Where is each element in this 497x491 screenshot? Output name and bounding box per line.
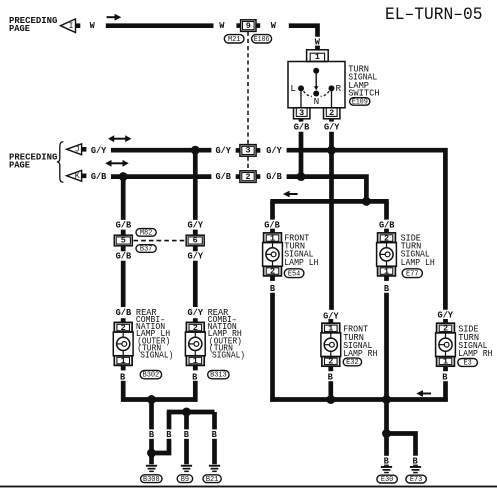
wire B jog from B308 junction to second bus	[152, 439, 170, 453]
svg-text:E73: E73	[410, 476, 423, 484]
wire B down to E30	[384, 434, 389, 456]
wire stub B308 ground	[149, 453, 154, 464]
svg-text:G/Y: G/Y	[188, 219, 204, 230]
wire G/B switch pin 3 down to K line	[299, 132, 304, 177]
connector 2	[236, 171, 261, 183]
ground B21	[209, 465, 220, 472]
connector 3	[236, 145, 261, 157]
wire stub above connector 6	[193, 230, 198, 236]
wire B front RH down to bus	[328, 381, 333, 402]
svg-text:3: 3	[299, 108, 304, 118]
two-way arrow (J line)	[108, 135, 131, 142]
wire G/B from K to connector 2	[111, 174, 211, 179]
svg-text:SIGNAL): SIGNAL)	[140, 350, 173, 361]
svg-text:G/Y: G/Y	[438, 309, 454, 320]
wire G/Y connector 6 to rear RH lamp	[193, 261, 198, 307]
svg-text:G/B: G/B	[116, 250, 132, 261]
wire W from page connector I to connector 9	[106, 23, 214, 28]
dashed link connector 5 to 6	[134, 240, 186, 242]
wire G/Y switch pin 2 down to front turn RH	[329, 132, 334, 310]
wire G/B rear LH branch upper	[121, 177, 126, 220]
svg-text:1: 1	[315, 52, 320, 62]
wire B rear LH down to bus	[121, 381, 126, 402]
front turn RH name	[343, 324, 377, 360]
svg-text:R: R	[335, 83, 341, 94]
front turn LH name	[284, 233, 318, 268]
svg-text:K: K	[75, 172, 80, 181]
rear combination LH name	[136, 307, 173, 361]
svg-text:B: B	[149, 429, 155, 440]
switch name text	[348, 64, 380, 99]
svg-text:G/Y: G/Y	[215, 145, 231, 156]
side turn LH name	[401, 233, 435, 268]
wire B bus (rear lamps)	[121, 397, 198, 402]
connector oval M82	[136, 229, 156, 238]
junction dot G/B at switch pin 3 wire	[297, 172, 306, 181]
wire B to B308 ground	[149, 439, 154, 453]
wire G/B switch pin 3 stub	[299, 119, 304, 122]
svg-text:PAGE: PAGE	[9, 160, 30, 171]
svg-text:W: W	[219, 20, 225, 31]
svg-text:B: B	[384, 283, 390, 294]
svg-text:G/Y: G/Y	[188, 307, 204, 318]
connector oval E106	[252, 35, 272, 44]
svg-text:J: J	[75, 145, 80, 154]
wire B to B9 ground lower	[184, 439, 189, 465]
wire B bus (front/side lamps)	[270, 397, 447, 402]
junction dot G/Y at switch pin 2 wire	[327, 146, 336, 155]
svg-text:G/B: G/B	[294, 122, 310, 133]
front turn signal lamp LH E54	[263, 229, 283, 281]
junction dot at B308 ground	[147, 449, 156, 458]
svg-text:E30: E30	[381, 476, 394, 484]
connector oval B37	[136, 245, 156, 254]
junction dot B bus at side LH	[382, 395, 391, 404]
junction dot G/B to rear LH branch	[119, 172, 128, 181]
svg-text:E54: E54	[288, 270, 301, 278]
svg-text:LAMP LH: LAMP LH	[401, 257, 435, 268]
svg-text:5: 5	[121, 236, 126, 246]
svg-text:B37: B37	[140, 246, 153, 254]
svg-text:G/B: G/B	[215, 171, 231, 182]
side turn signal lamp RH E3	[436, 319, 456, 371]
ground E30	[381, 466, 392, 473]
wire B front LH down to bus	[270, 293, 275, 402]
svg-text:E109: E109	[352, 99, 368, 107]
connector oval E32	[343, 358, 361, 367]
svg-text:EL–TURN–05: EL–TURN–05	[385, 5, 483, 25]
wire B from bus down to E30/E73 junction	[384, 400, 389, 434]
turn signal lamp switch E109	[288, 50, 345, 119]
rear combination RH name	[208, 307, 245, 361]
svg-text:L: L	[290, 83, 296, 94]
wire B to B21 ground lower	[212, 439, 217, 465]
svg-text:B: B	[270, 283, 276, 294]
wire B jog upper	[167, 412, 172, 429]
wire stub above connector 5	[121, 230, 126, 236]
wire B side LH down to bus	[384, 293, 389, 400]
side turn RH name	[458, 324, 492, 360]
connector oval B313	[208, 370, 229, 379]
ground oval B9	[177, 475, 192, 484]
ground oval E73	[406, 475, 426, 484]
ground B308	[146, 465, 157, 472]
svg-text:SWITCH: SWITCH	[348, 87, 380, 98]
svg-text:2: 2	[329, 108, 334, 118]
svg-text:B: B	[192, 371, 198, 382]
connector oval E77	[402, 269, 422, 279]
wire G/B down to side turn LH	[384, 201, 389, 219]
svg-text:M21: M21	[228, 36, 241, 44]
wire B rear RH down to bus	[193, 381, 198, 402]
junction dot B second bus	[182, 408, 191, 417]
direction arrow right (top)	[107, 14, 122, 21]
svg-text:M82: M82	[140, 230, 153, 238]
connector oval E54	[284, 269, 304, 279]
wire G/B down to front turn LH	[270, 201, 275, 219]
rear combination lamp RH B313	[185, 318, 205, 370]
svg-text:G/B: G/B	[116, 219, 132, 230]
ground oval B308	[141, 475, 162, 484]
connector 9	[236, 20, 260, 32]
wire G/Y from connector 3 to side turn RH	[287, 150, 446, 310]
svg-text:9: 9	[246, 21, 251, 31]
svg-text:3: 3	[245, 146, 250, 156]
svg-text:6: 6	[193, 236, 198, 246]
svg-text:G/B: G/B	[116, 307, 132, 318]
svg-text:E106: E106	[254, 36, 270, 44]
svg-text:1: 1	[121, 356, 126, 366]
svg-text:G/Y: G/Y	[324, 122, 340, 133]
two-way arrow (K line)	[105, 160, 128, 167]
svg-text:G/Y: G/Y	[266, 145, 282, 156]
wire G/B connector 5 to rear LH lamp	[121, 261, 126, 307]
harness split dashed line M21/E106 to E109 connectors	[247, 32, 249, 171]
page connector J	[67, 144, 87, 155]
brace for J/K page connectors	[57, 142, 64, 183]
svg-text:W: W	[90, 20, 96, 31]
svg-text:B: B	[184, 429, 190, 440]
svg-text:2: 2	[270, 266, 275, 276]
svg-text:B: B	[212, 429, 218, 440]
front turn signal lamp RH E32	[321, 319, 341, 371]
wire stub E30 ground	[384, 465, 389, 466]
preceding page label (middle)	[9, 152, 58, 171]
svg-text:E3: E3	[463, 360, 471, 368]
wire W from connector 9 to switch pin 1	[289, 26, 318, 37]
svg-text:2: 2	[328, 357, 333, 367]
page footer rule	[0, 486, 497, 488]
wire B branch to E73	[387, 434, 416, 456]
junction dot E30/E73	[382, 429, 391, 438]
wire G/Y rear RH branch upper	[193, 150, 198, 220]
wire B second bus	[167, 410, 215, 415]
page connector K	[67, 170, 87, 181]
wire G/B branch to front LH and side LH lamps	[270, 199, 388, 204]
side turn signal lamp LH E77	[377, 229, 397, 281]
junction dot B bus at front RH	[326, 395, 335, 404]
svg-text:1: 1	[384, 266, 389, 276]
wire stub E73 ground	[413, 465, 418, 466]
svg-text:PAGE: PAGE	[9, 23, 30, 34]
wire B down to B21 ground	[212, 412, 217, 429]
svg-text:1: 1	[443, 357, 448, 367]
connector oval M21	[224, 35, 244, 44]
junction dot G/Y to rear RH branch	[191, 146, 200, 155]
connector 5	[114, 235, 132, 246]
ground B9	[181, 465, 192, 472]
wire G/B from connector 2 to front/side LH branch	[287, 177, 367, 202]
svg-text:G/B: G/B	[266, 171, 282, 182]
direction arrow left (B bus)	[416, 390, 431, 397]
connector 6	[186, 235, 204, 246]
direction arrow left (G/B branch)	[283, 191, 298, 198]
svg-text:G/Y: G/Y	[91, 145, 107, 156]
wire stub into switch pin 1	[315, 46, 320, 50]
wire G/Y from J to connector 3	[111, 148, 211, 153]
svg-text:B: B	[328, 372, 334, 383]
svg-text:B313: B313	[210, 372, 227, 380]
svg-text:G/B: G/B	[91, 171, 107, 182]
wire stub below connector 5	[121, 246, 126, 251]
svg-text:B: B	[166, 429, 172, 440]
ground E73	[410, 466, 421, 473]
connector oval E3	[458, 359, 478, 368]
svg-text:E77: E77	[406, 270, 419, 278]
wire stub below connector 6	[193, 246, 198, 251]
svg-text:B21: B21	[206, 476, 219, 484]
svg-text:B: B	[120, 371, 126, 382]
svg-text:G/Y: G/Y	[188, 250, 204, 261]
preceding page label (top)	[9, 15, 58, 34]
svg-text:B9: B9	[181, 476, 189, 484]
wire G/Y switch pin 2 stub	[329, 119, 334, 122]
junction dot B bus left	[147, 395, 156, 404]
page connector I	[61, 19, 81, 33]
svg-text:LAMP LH: LAMP LH	[284, 257, 318, 268]
ground oval E30	[377, 475, 397, 484]
ground oval B21	[203, 475, 221, 484]
svg-text:B308: B308	[143, 476, 160, 484]
connector oval E109	[350, 98, 370, 107]
svg-text:SIGNAL): SIGNAL)	[212, 350, 245, 361]
svg-text:LAMP RH: LAMP RH	[458, 348, 492, 359]
wire B down to B9 ground	[184, 412, 189, 429]
svg-text:2: 2	[245, 172, 250, 182]
wire B side RH down to bus	[443, 381, 448, 402]
svg-text:B302: B302	[143, 372, 160, 380]
wire B down from bus to B308 junction	[149, 400, 154, 430]
svg-text:1: 1	[193, 356, 198, 366]
svg-text:I: I	[69, 22, 74, 31]
svg-text:W: W	[271, 20, 277, 31]
rear combination lamp LH B302	[113, 318, 133, 370]
svg-text:N: N	[314, 96, 320, 107]
svg-text:B: B	[442, 372, 448, 383]
junction dot G/B branch	[362, 197, 371, 206]
connector oval B302	[140, 370, 161, 379]
svg-text:E32: E32	[346, 359, 359, 367]
